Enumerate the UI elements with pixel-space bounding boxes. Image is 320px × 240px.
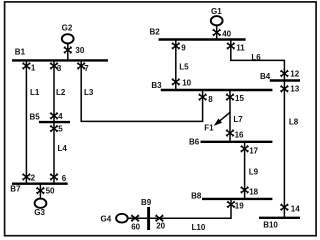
wire generator G1 stem [216, 26, 218, 40]
svg-text:19: 19 [235, 202, 244, 211]
svg-text:16: 16 [235, 131, 244, 140]
svg-text:L6: L6 [251, 53, 261, 62]
breaker 9 [172, 42, 186, 52]
svg-text:11: 11 [236, 44, 245, 53]
breaker 16 [226, 130, 244, 140]
svg-text:B4: B4 [260, 72, 271, 81]
wire L5 from bus B2 to bus B3 [175, 40, 177, 91]
bus B2 [150, 28, 246, 40]
svg-text:5: 5 [58, 125, 63, 134]
svg-text:B2: B2 [150, 28, 161, 37]
bus B6 [189, 138, 272, 147]
svg-text:3: 3 [57, 64, 62, 73]
svg-text:50: 50 [46, 187, 55, 196]
svg-text:15: 15 [235, 94, 244, 103]
svg-text:12: 12 [290, 69, 299, 78]
svg-text:B8: B8 [191, 192, 202, 201]
svg-text:1: 1 [31, 64, 36, 73]
bus B8 [191, 192, 272, 201]
svg-text:2: 2 [31, 173, 36, 182]
breaker 50 [36, 187, 55, 196]
svg-text:F1: F1 [204, 123, 214, 132]
svg-text:30: 30 [75, 46, 84, 55]
svg-text:10: 10 [182, 79, 191, 88]
svg-text:B3: B3 [151, 81, 162, 90]
svg-text:L3: L3 [84, 88, 94, 97]
svg-text:G2: G2 [62, 23, 73, 32]
svg-text:B7: B7 [10, 185, 21, 194]
bus B1 [12, 48, 108, 61]
breaker 4 [50, 112, 63, 121]
wire L10 from bus B9 to bus B8 [149, 199, 231, 218]
wire L2 from bus B1 to bus B5 [53, 60, 55, 122]
svg-text:L1: L1 [30, 88, 40, 97]
svg-text:20: 20 [156, 222, 165, 231]
breaker 17 [241, 145, 259, 155]
svg-text:L10: L10 [192, 223, 206, 232]
breaker 10 [172, 78, 192, 87]
breaker 8 [199, 94, 214, 105]
svg-text:6: 6 [62, 174, 67, 183]
svg-text:L4: L4 [58, 144, 68, 153]
svg-text:G1: G1 [211, 7, 222, 16]
svg-text:4: 4 [58, 112, 63, 121]
wire L8 from bus B4 to bus B10 [283, 81, 285, 218]
bus B3 [151, 81, 272, 90]
bus B7 [10, 184, 67, 194]
wire L9 from bus B6 to bus B8 [244, 142, 246, 199]
svg-text:7: 7 [84, 64, 89, 73]
breaker 11 [227, 42, 245, 52]
breaker 19 [227, 201, 244, 211]
bus B9 [141, 198, 152, 230]
fault F1 arrow [204, 113, 229, 133]
svg-text:L2: L2 [56, 88, 66, 97]
breaker 40 [213, 29, 232, 38]
generator G4 [101, 214, 128, 224]
breaker 14 [280, 204, 300, 214]
wire L4 from bus B5 to bus B7 [53, 122, 55, 184]
svg-text:9: 9 [181, 43, 186, 52]
breaker 3 [50, 62, 62, 72]
wire L1 from bus B1 to bus B7 [25, 60, 27, 183]
breaker 20 [155, 215, 165, 231]
svg-text:G4: G4 [101, 215, 112, 224]
generator G3 [34, 199, 46, 217]
svg-text:17: 17 [249, 147, 258, 156]
breaker 1 [22, 62, 35, 72]
wire L3 from bus B1 to bus B3 [81, 60, 202, 121]
bus B4 [260, 72, 300, 81]
svg-text:8: 8 [208, 95, 213, 104]
svg-text:B9: B9 [141, 198, 152, 207]
svg-text:B5: B5 [30, 113, 41, 122]
generator G2 [62, 23, 74, 43]
svg-text:L9: L9 [249, 168, 259, 177]
svg-text:14: 14 [291, 205, 300, 214]
breaker 18 [241, 186, 259, 196]
breaker 7 [77, 62, 89, 72]
svg-text:40: 40 [222, 30, 231, 39]
bus B5 [30, 113, 71, 123]
breaker 13 [280, 85, 299, 94]
svg-text:60: 60 [131, 222, 140, 231]
breaker 2 [22, 173, 35, 182]
svg-text:L5: L5 [179, 63, 189, 72]
breaker 5 [50, 125, 63, 134]
svg-text:G3: G3 [34, 208, 45, 217]
breaker 15 [226, 94, 244, 104]
bus B10 [259, 218, 300, 230]
wire L6 from bus B2 to bus B4 [231, 40, 285, 81]
breaker 6 [50, 173, 67, 183]
svg-text:L8: L8 [289, 117, 299, 126]
wire L7 from bus B3 to bus B6 [229, 90, 231, 142]
svg-text:B1: B1 [15, 48, 26, 57]
svg-text:L7: L7 [233, 115, 243, 124]
generator G1 [211, 7, 223, 25]
breaker 60 [131, 215, 141, 232]
breaker 30 [64, 46, 85, 55]
wire generator G3 stem [39, 184, 41, 199]
svg-text:B10: B10 [263, 221, 278, 230]
svg-text:18: 18 [249, 188, 258, 197]
svg-text:13: 13 [290, 85, 299, 94]
wire generator G2 stem [67, 44, 69, 60]
svg-text:B6: B6 [189, 138, 200, 147]
breaker 12 [280, 69, 299, 78]
wire generator G4 stem [128, 217, 147, 219]
